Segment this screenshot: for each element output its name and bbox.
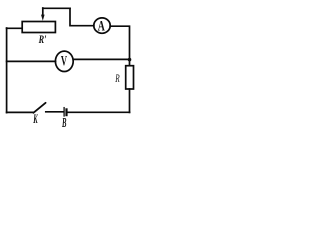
wire step down to ammeter <box>70 8 94 25</box>
wire voltmeter left <box>7 60 56 62</box>
wire voltmeter right to junction <box>73 58 129 60</box>
ammeter A <box>94 18 110 33</box>
svg-text:R′: R′ <box>38 34 47 47</box>
battery B long plate <box>63 108 65 116</box>
voltmeter V <box>55 51 73 71</box>
wire R' left lead <box>7 27 22 29</box>
resistor R <box>126 66 134 89</box>
node junction voltmeter/R <box>128 58 132 62</box>
wire bottom right segment <box>68 111 130 113</box>
wire below R <box>129 89 131 112</box>
wire ammeter to right corner and down <box>110 26 129 65</box>
rheostat R' <box>22 22 55 33</box>
slider arrow of R' <box>41 8 45 21</box>
svg-text:R: R <box>115 73 120 86</box>
wire top from slider <box>43 7 70 9</box>
wire bottom middle segment <box>46 111 63 113</box>
svg-text:A: A <box>98 17 106 34</box>
wire bottom left segment <box>7 111 33 113</box>
svg-text:V: V <box>61 52 67 69</box>
wire left vertical <box>6 28 8 113</box>
svg-text:K: K <box>33 113 39 127</box>
svg-text:B: B <box>61 117 66 131</box>
battery B short thick plate <box>65 109 67 115</box>
switch K blade <box>33 103 45 113</box>
